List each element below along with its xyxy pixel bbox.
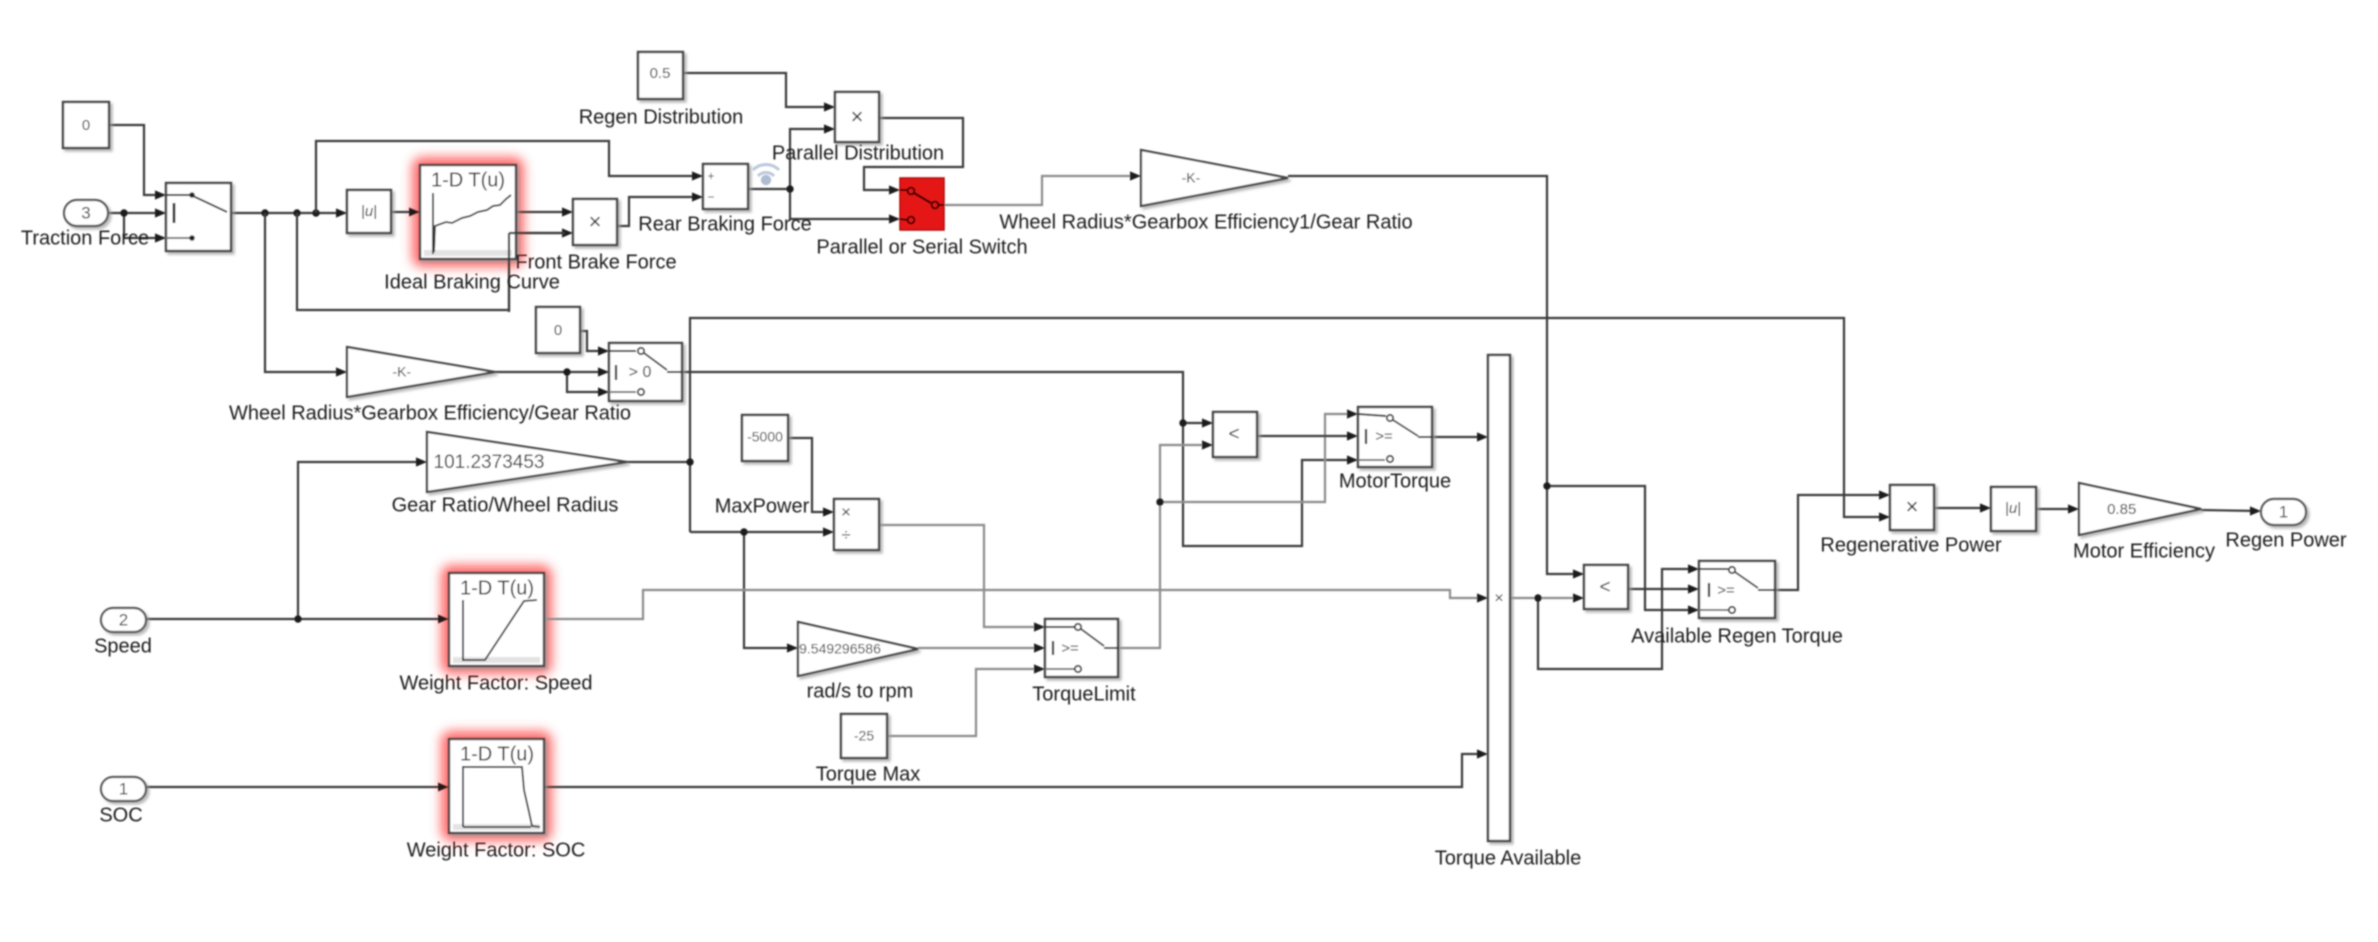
gain WheelRadius*GearboxEfficiency/GearRatio [347, 347, 495, 397]
node: main junction 2 [293, 209, 300, 216]
svg-text:×: × [841, 502, 851, 521]
svg-text:<: < [1599, 577, 1610, 598]
svg-text:+: + [707, 169, 714, 183]
svg-text:MaxPower: MaxPower [715, 495, 810, 517]
inport 1 SOC [101, 777, 146, 801]
wire: less2 out to ART switch input2 [1628, 588, 1696, 590]
glow: Ideal Braking Curve [412, 157, 524, 267]
svg-text:|u|: |u| [2005, 500, 2021, 517]
relational less2 [1584, 565, 1628, 609]
svg-text:3: 3 [81, 203, 90, 222]
switch MotorTorque [1358, 407, 1432, 467]
lookup table Ideal Braking Curve [420, 165, 516, 259]
node: sum output junction [786, 185, 793, 192]
product Regenerative Power [1890, 485, 1934, 530]
svg-text:÷: ÷ [841, 525, 850, 544]
wire: product FrontBrake out to Sum minus input [617, 197, 701, 226]
red switch Parallel or Serial Switch [900, 178, 944, 230]
wire: vertical x690 and long top line to RegenPower product input2 [690, 318, 1888, 532]
node: junction x690 [686, 458, 693, 465]
svg-text:> 0: > 0 [629, 364, 652, 381]
wire: branch to MotorTorque input1 (grey) [1160, 414, 1355, 502]
svg-text:Torque Max: Torque Max [816, 763, 921, 785]
svg-text:Rear Braking Force: Rear Braking Force [638, 213, 811, 235]
wire: branch to SwitchA input3 [124, 213, 164, 238]
wire: Sum out with junction [748, 188, 790, 190]
svg-text:Ideal Braking Curve: Ideal Braking Curve [384, 271, 560, 293]
relational less1 [1213, 412, 1257, 457]
svg-text:1-D T(u): 1-D T(u) [431, 169, 505, 191]
svg-text:>=: >= [1061, 640, 1079, 657]
abs block |u| [347, 190, 391, 233]
switch GreaterThanZero [609, 343, 682, 401]
product Front Brake Force [573, 199, 617, 245]
svg-text:0: 0 [554, 322, 562, 339]
wire: less1 out to MotorTorque input2 [1257, 435, 1355, 437]
svg-text:Parallel or Serial Switch: Parallel or Serial Switch [816, 236, 1027, 258]
svg-text:>=: >= [1375, 428, 1393, 445]
node: junction before less1 [1179, 419, 1186, 426]
constant 0.5 Regen Distribution [638, 52, 683, 99]
wire: constant -5000 to divide input1 [788, 438, 831, 512]
wire: radps gain out to TorqueLimit input2 (grey) [918, 647, 1042, 649]
wire: SwitchA output main line to Abs [231, 212, 345, 214]
wire: TorqueLimit out up to less1 input2 (grey) [1118, 445, 1210, 648]
svg-text:×: × [1494, 590, 1503, 607]
wire: branch down to radps gain [744, 532, 796, 648]
svg-text:0: 0 [82, 117, 90, 134]
wire: SOC inport to WFSOC [146, 786, 446, 788]
svg-text:rad/s to rpm: rad/s to rpm [807, 680, 914, 702]
switch Available Regen Torque [1699, 561, 1775, 618]
divide block [834, 499, 879, 550]
wire: ParallelDistribution out loop to red switch input1 [864, 118, 963, 190]
wire: constant0B to GreaterSwitch input1 [580, 331, 607, 351]
wire: WheelRadius gain out to GreaterSwitch input2 [495, 371, 607, 373]
wire: constant 0.5 to ParallelDistribution input1 [683, 73, 833, 107]
wire: bypass loop to product FrontBrake input2 [297, 213, 571, 310]
svg-text:|u|: |u| [361, 203, 377, 220]
wire: branch down to MotorTorque input3 [1183, 423, 1356, 546]
node: speed junction [294, 615, 301, 622]
glow: Weight Factor Speed [441, 565, 552, 674]
wire: RegenPower product to AbsB [1934, 507, 1988, 509]
svg-text:−: − [707, 190, 714, 204]
wifi badge [753, 164, 779, 176]
node: junction x1160 [1156, 498, 1163, 505]
node: junction x1538 [1534, 594, 1541, 601]
wire: Traction Force inport to SwitchA input2 [108, 212, 164, 214]
svg-text:×: × [1906, 494, 1919, 519]
constant -25 Torque Max [841, 714, 887, 758]
wire: branch up to ParallelDistribution input2 [790, 129, 833, 189]
svg-text:SOC: SOC [99, 804, 142, 826]
svg-text:1: 1 [2279, 502, 2288, 521]
svg-text:<: < [1228, 424, 1239, 445]
lookup Weight Factor: Speed [449, 573, 544, 666]
svg-text:2: 2 [119, 610, 128, 629]
svg-text:Regen Distribution: Regen Distribution [579, 106, 744, 128]
wire: red switch out to gain1 (grey) [944, 176, 1133, 205]
wire: branch down to red switch input2 [790, 189, 898, 219]
svg-text:1: 1 [119, 779, 128, 798]
wire: constant0A to SwitchA input1 [109, 125, 164, 195]
svg-text:Regen Power: Regen Power [2225, 529, 2347, 551]
node: junction x744 [740, 528, 747, 535]
svg-text:101.2373453: 101.2373453 [434, 452, 545, 473]
svg-text:0.5: 0.5 [650, 65, 671, 82]
sum block (Rear Braking Force) [703, 164, 748, 209]
outport 1 Regen Power [2261, 499, 2306, 525]
svg-text:TorqueLimit: TorqueLimit [1032, 683, 1136, 705]
svg-text:0.85: 0.85 [2107, 501, 2136, 518]
wire: ART switch out to RegenPower product input1 [1775, 495, 1888, 590]
inport 3 Traction Force [64, 200, 108, 226]
product Torque Available (tall) [1488, 355, 1510, 841]
glow: Weight Factor SOC [441, 731, 552, 841]
wire: AbsB to MotorEfficiency gain [2036, 508, 2076, 510]
node: main junction 1 [261, 209, 268, 216]
svg-text:Wheel Radius*Gearbox Efficienc: Wheel Radius*Gearbox Efficiency/Gear Rat… [229, 402, 631, 424]
svg-text:Traction Force: Traction Force [21, 227, 149, 249]
switch A (manual switch) [166, 183, 231, 251]
wire: TorqueAvailable out to less2 input2 (grey) [1510, 597, 1581, 599]
node: main junction 3 [312, 209, 319, 216]
svg-text:>=: >= [1717, 582, 1735, 599]
node: junction before GreaterSwitch [563, 368, 570, 375]
product Parallel Distribution [835, 92, 879, 142]
wire: GreaterSwitch out long line to less1 input1 [682, 372, 1211, 423]
wire: WFSpeed out long line to TorqueAvailable input2 (grey) [544, 590, 1485, 619]
wire: constant -25 to TorqueLimit input3 (grey) [887, 669, 1042, 736]
wire: MotorEfficiency gain to Regen Power outport [2201, 510, 2258, 511]
svg-text:-K-: -K- [392, 364, 411, 380]
svg-text:-5000: -5000 [747, 429, 783, 445]
constant 0 (second) [536, 307, 580, 353]
svg-text:Parallel Distribution: Parallel Distribution [772, 142, 944, 164]
svg-text:Motor Efficiency: Motor Efficiency [2073, 540, 2215, 562]
svg-text:Weight Factor: Speed: Weight Factor: Speed [399, 672, 592, 694]
node: traction junction [120, 209, 127, 216]
svg-text:×: × [851, 104, 864, 129]
wire: GearRatio gain out to vertical x690 [627, 461, 690, 463]
wire: Speed branch up to GearRatio gain [298, 462, 424, 619]
svg-text:Torque Available: Torque Available [1435, 847, 1581, 869]
wire: lookup out to product FrontBrake input1 [516, 211, 571, 213]
gain rad/s to rpm [798, 622, 918, 676]
wire: bypass loop overlay segment over lookup corner [508, 233, 510, 312]
wire: gain1 out long right and down to vertical x1547 [1288, 176, 1582, 574]
inport 2 Speed [101, 608, 146, 632]
svg-text:Front Brake Force: Front Brake Force [515, 251, 676, 273]
svg-text:Weight Factor: SOC: Weight Factor: SOC [407, 839, 586, 861]
wire: x690 down to divide input2 [690, 531, 831, 533]
gain Motor Efficiency 0.85 [2079, 483, 2201, 535]
wire: Speed inport to WFSpeed [146, 618, 446, 620]
svg-text:Speed: Speed [94, 635, 152, 657]
lookup Weight Factor: SOC [449, 739, 544, 833]
svg-text:-K-: -K- [1182, 170, 1201, 186]
svg-text:1-D T(u): 1-D T(u) [460, 743, 534, 765]
gain WheelRadius*GearboxEfficiency1/GearRatio [1141, 150, 1288, 206]
abs block B [1991, 487, 2036, 531]
constant -5000 MaxPower [742, 415, 788, 461]
wire: Abs out to lookup [391, 211, 418, 213]
svg-text:×: × [589, 209, 602, 234]
wire: branch from x1547 to ART switch input3 [1547, 486, 1697, 610]
constant 0 (top-left) [63, 102, 109, 148]
switch TorqueLimit [1045, 619, 1118, 677]
svg-text:Gear Ratio/Wheel Radius: Gear Ratio/Wheel Radius [392, 494, 619, 516]
wire: branch to GreaterSwitch input3 [567, 372, 607, 392]
node: junction x1547 [1543, 482, 1550, 489]
gain Gear Ratio/Wheel Radius [427, 432, 627, 492]
wire: branch down to WheelRadius gain [265, 213, 345, 372]
wire: MotorTorque out to TorqueAvailable input1 [1432, 436, 1485, 438]
svg-text:MotorTorque: MotorTorque [1339, 470, 1451, 492]
svg-text:1-D T(u): 1-D T(u) [460, 577, 534, 599]
svg-text:Available Regen Torque: Available Regen Torque [1631, 625, 1843, 647]
svg-text:9.549296586: 9.549296586 [799, 641, 881, 657]
wire: top bypass to Sum plus input [316, 141, 701, 213]
svg-text:Wheel Radius*Gearbox Efficienc: Wheel Radius*Gearbox Efficiency1/Gear Ra… [999, 211, 1412, 233]
svg-text:-25: -25 [854, 728, 874, 744]
svg-text:Regenerative Power: Regenerative Power [1820, 534, 2002, 556]
wire: branch loop to ART switch input1 [1538, 569, 1696, 669]
wire: divide out to TorqueLimit input1 (grey) [879, 525, 1042, 627]
wire: WFSOC out long line to TorqueAvailable input3 [544, 754, 1485, 787]
